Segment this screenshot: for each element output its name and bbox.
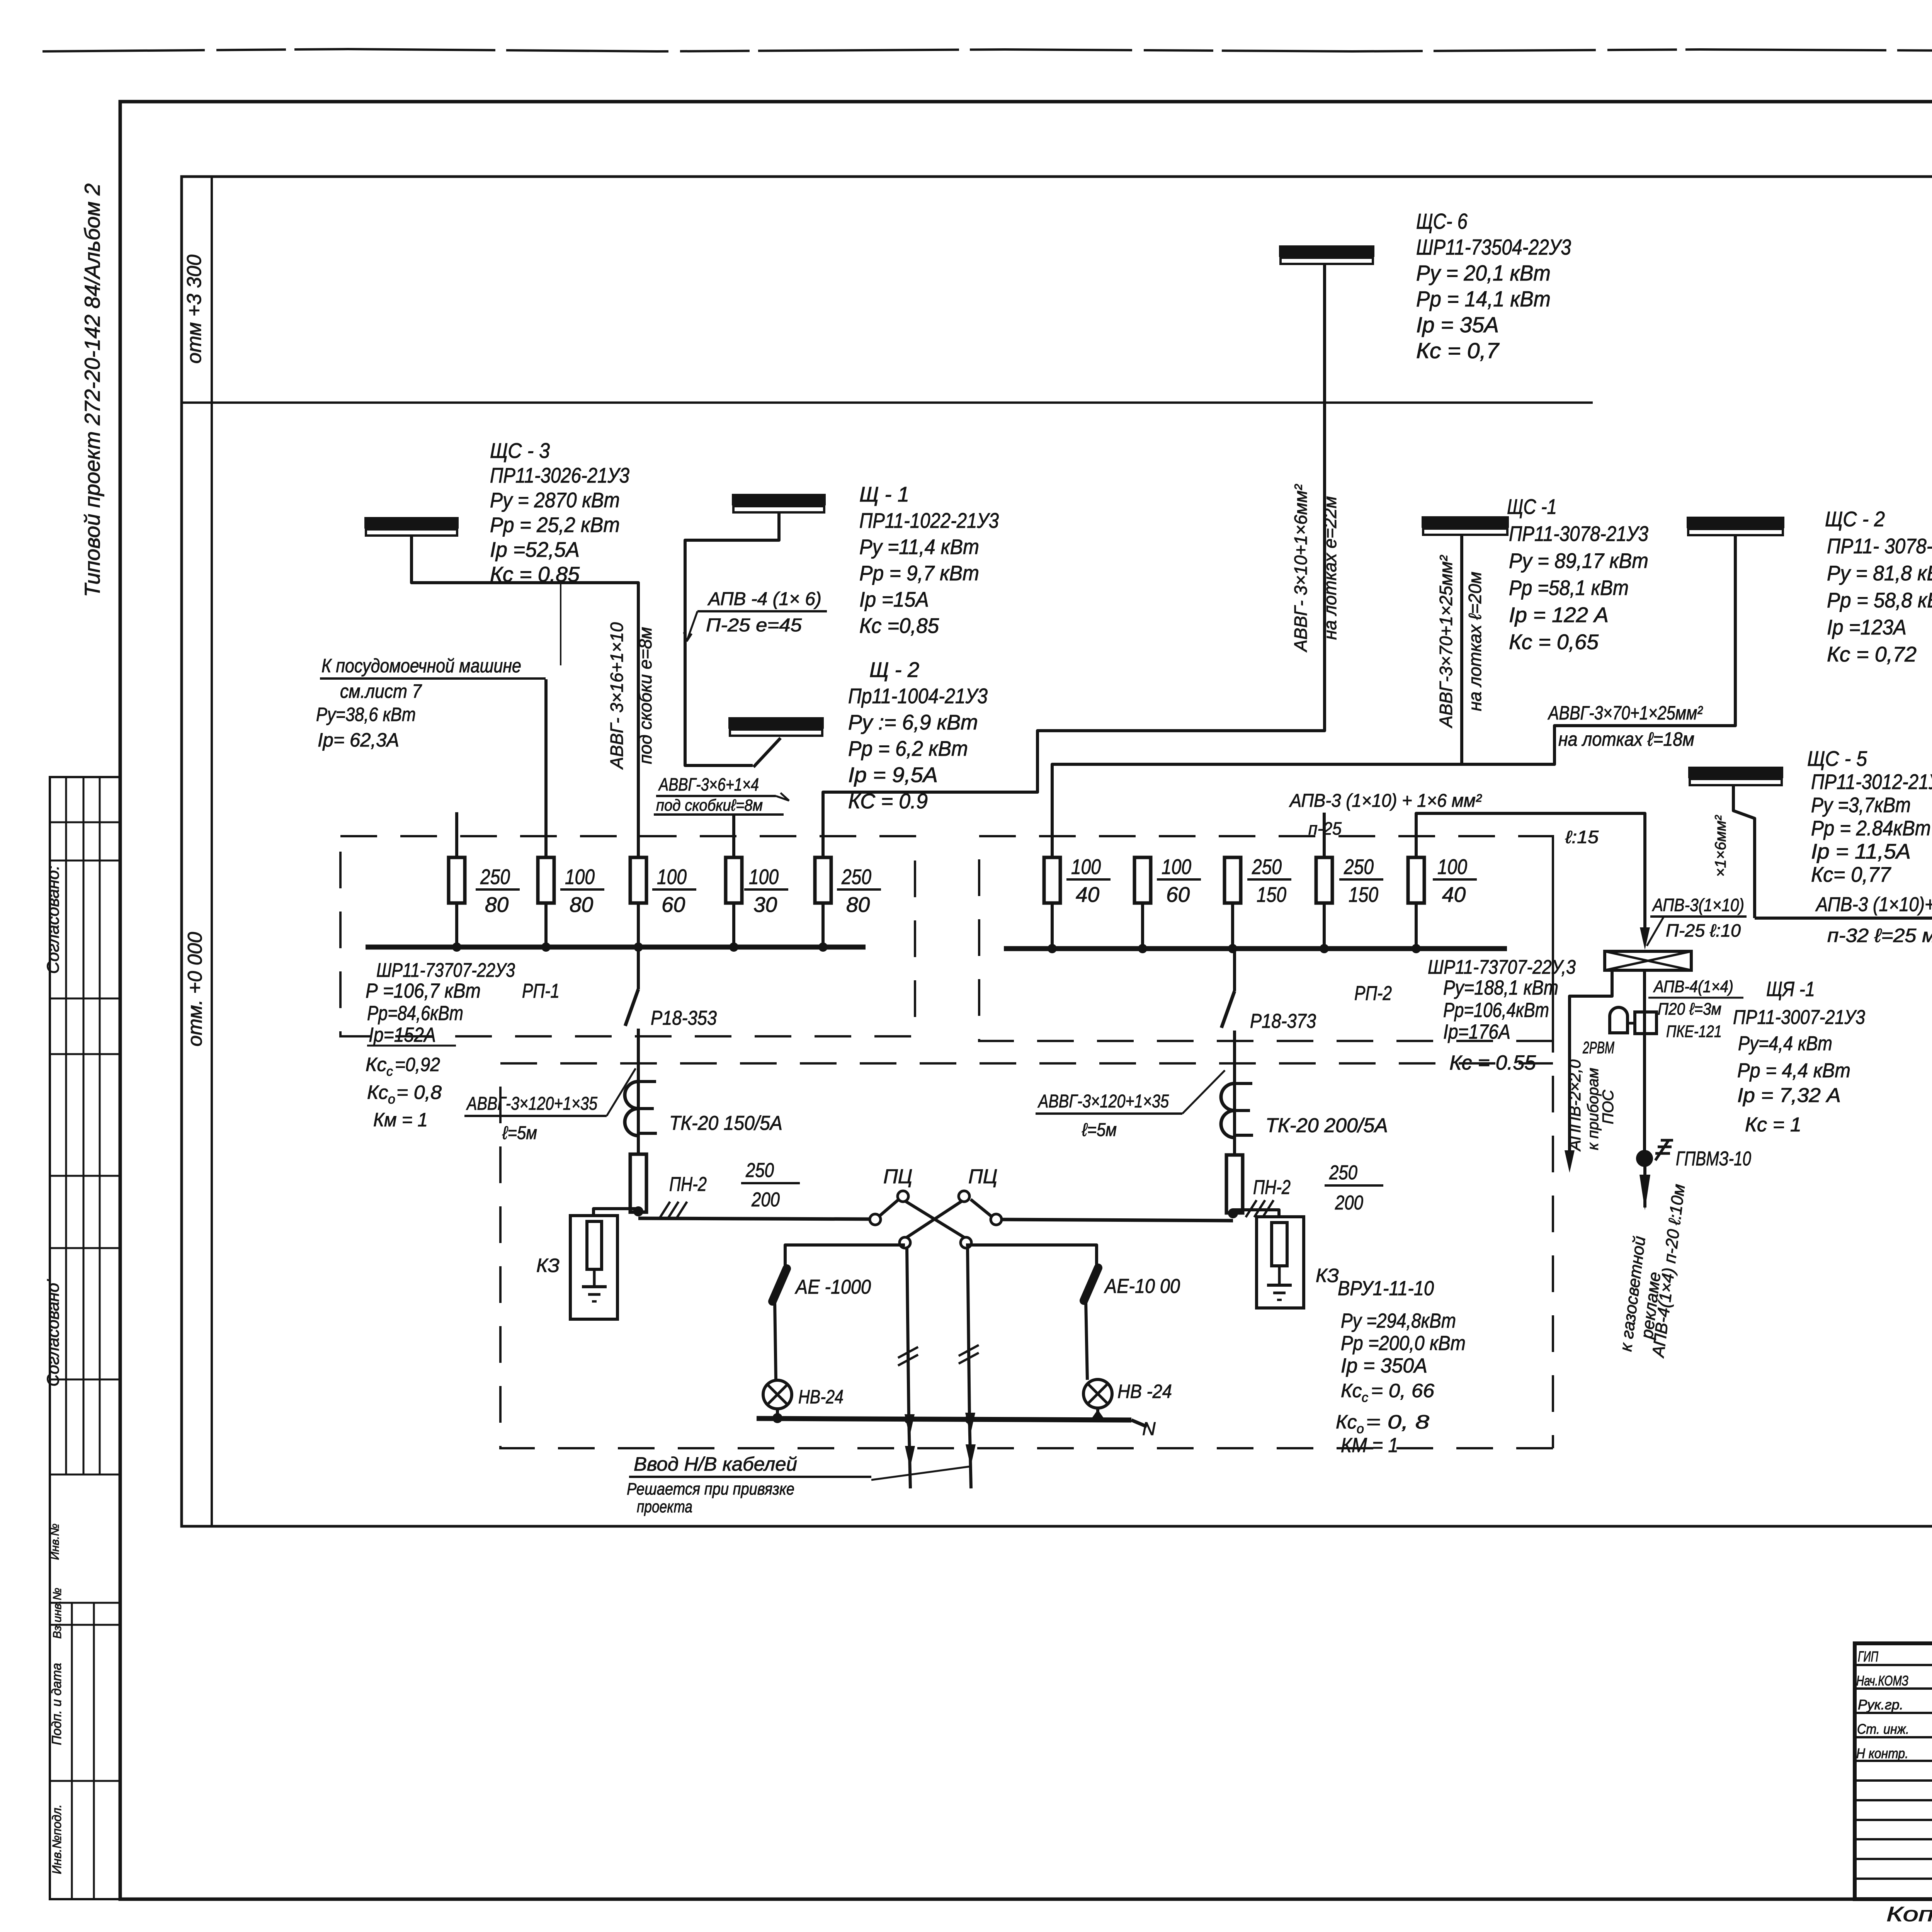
svg-text:проекта: проекта (637, 1497, 692, 1516)
label к приборам ПОС vertical (1585, 1068, 1617, 1150)
title row ГИП (1858, 1647, 1932, 1665)
svg-text:Инв.№подл.: Инв.№подл. (50, 1804, 64, 1874)
schematic area box (182, 177, 1932, 1526)
label к газосветной рекламе vertical (1616, 1183, 1689, 1359)
svg-text:250: 250 (1344, 855, 1374, 879)
svg-text:ПР11-3007-21У3: ПР11-3007-21У3 (1733, 1006, 1865, 1029)
svg-text:Подп. и дата: Подп. и дата (49, 1663, 64, 1745)
svg-text:ℓ=5м: ℓ=5м (502, 1123, 537, 1143)
cable label АПВ-3(1х10) П-25 е=10 (1647, 895, 1747, 946)
svg-text:Ввод Н/В кабелей: Ввод Н/В кабелей (634, 1453, 797, 1475)
tap ГПВМЗ-10 dot (1636, 1150, 1653, 1167)
svg-text:п-32 ℓ=25 м: п-32 ℓ=25 м (1827, 925, 1932, 946)
svg-text:НВ -24: НВ -24 (1117, 1381, 1172, 1402)
svg-text:Ру = 20,1 кВт: Ру = 20,1 кВт (1416, 261, 1551, 286)
junction РП-2 feeder (1228, 1208, 1238, 1218)
svg-text:Рр = 4,4 кВт: Рр = 4,4 кВт (1737, 1060, 1850, 1082)
switch ПКЕ-121 symbol (1635, 1012, 1656, 1034)
wire Щ-2 drop to fuse (732, 815, 735, 857)
lamp НВ-24 right (1083, 1379, 1112, 1408)
junction box ЩЯ-1 crossed rect (1605, 951, 1691, 970)
panel ЩС-1 busbar (1422, 516, 1509, 535)
svg-text:60: 60 (662, 893, 685, 917)
svg-text:Кс: Кс (367, 1082, 388, 1103)
svg-text:ПЦ: ПЦ (883, 1165, 913, 1188)
switch Р18-353 (625, 947, 638, 1154)
svg-text:КМ = 1: КМ = 1 (1341, 1434, 1398, 1457)
svg-text:Кс: Кс (366, 1054, 386, 1075)
svg-text:под скобкиℓ=8м: под скобкиℓ=8м (656, 796, 763, 814)
svg-text:ЩС - 3: ЩС - 3 (490, 439, 550, 463)
wire АПВ link ЩС-5 to ЩС-4 (1755, 917, 1932, 920)
junction (1141, 903, 1144, 949)
svg-text:п-25: п-25 (1308, 818, 1342, 838)
earthing box КЗ left (570, 1216, 617, 1319)
cable label АПВ-3(1х10)+1х6мм2 п-32 е=25м (1815, 893, 1932, 946)
page torn top edge (43, 49, 1932, 51)
svg-text:под скобки е=8м: под скобки е=8м (635, 627, 655, 764)
fuse ПН-2 left (630, 1154, 646, 1212)
svg-text:80: 80 (485, 893, 509, 917)
fuse label 100/60 b (1157, 855, 1201, 906)
wire ПЦ right feeder (1002, 1219, 1233, 1221)
fuse label 250/80 (476, 865, 520, 917)
fuse label 250/150 b (1339, 855, 1383, 906)
fuse РП-1 F2 100/80 (538, 857, 554, 903)
svg-text:Согласовано:: Согласовано: (44, 866, 63, 974)
cable label АВВГ-3х120+1х35 е=5м right (1036, 1070, 1225, 1140)
svg-text:ШР11-73707-22У3: ШР11-73707-22У3 (376, 959, 515, 981)
fuse РП-1 F4 100/30 (726, 857, 742, 903)
svg-text:Кс: Кс (1341, 1380, 1362, 1401)
svg-text:Ру =294,8кВт: Ру =294,8кВт (1341, 1310, 1456, 1332)
svg-text:Ру = 89,17 кВт: Ру = 89,17 кВт (1509, 549, 1648, 573)
svg-text:Iр = 350А: Iр = 350А (1341, 1354, 1427, 1377)
wire АЕ-1000 left branch (785, 1245, 905, 1269)
svg-text:Инв.№: Инв.№ (49, 1524, 61, 1560)
junction РП-1 feeder (633, 1206, 643, 1216)
svg-text:150: 150 (1257, 883, 1286, 906)
elevation line +3.300 (182, 401, 1593, 404)
svg-text:ПН-2: ПН-2 (1253, 1176, 1291, 1199)
wire Щ-1 drop (685, 512, 779, 765)
fuse РП-1 F5 250/80 (815, 857, 831, 903)
svg-text:Iр = 122 А: Iр = 122 А (1509, 603, 1609, 627)
svg-text:ТК-20 150/5А: ТК-20 150/5А (669, 1112, 782, 1134)
hash marks right (1246, 1200, 1274, 1217)
svg-text:×1×6мм²: ×1×6мм² (1712, 815, 1729, 877)
cable label АПВ-3(1х10)+1х6мм2 П-25 е=15 (1289, 791, 1599, 847)
fuse label 100/40 b (1433, 855, 1477, 906)
cable label АВВГ-3х6+1х4 под скобки (654, 774, 789, 815)
left margin table (50, 777, 121, 1899)
panel Щ-2 label block (848, 658, 988, 813)
fuse РП-2 F2 100/60 (1134, 857, 1151, 903)
svg-text:АВВГ-3×70+1×25мм²: АВВГ-3×70+1×25мм² (1436, 555, 1456, 729)
svg-text:Iр = 35А: Iр = 35А (1416, 313, 1499, 337)
svg-text:Ру=188,1 кВт: Ру=188,1 кВт (1443, 976, 1558, 999)
wire АПВ-3(1х10)+1х6 from РП-2 fuse5 (1416, 813, 1645, 938)
cable label АПВ-4(1х6) П-25 е=45 (684, 589, 827, 641)
svg-text:АППВ-2×2,0: АППВ-2×2,0 (1566, 1059, 1584, 1152)
junction (637, 903, 640, 947)
junction (1231, 903, 1234, 949)
svg-text:АВВГ- 3×16+1×10: АВВГ- 3×16+1×10 (607, 622, 627, 770)
svg-text:АЕ -1000: АЕ -1000 (794, 1276, 871, 1298)
switchgear dashed box (500, 836, 1553, 1448)
svg-text:ПОС: ПОС (1600, 1089, 1617, 1124)
svg-text:2РВМ: 2РВМ (1582, 1038, 1614, 1057)
svg-text:Копировал: Копировал (1886, 1903, 1932, 1926)
svg-text:Кс = 0,72: Кс = 0,72 (1827, 642, 1917, 666)
svg-text:АЕ-10 00: АЕ-10 00 (1104, 1275, 1180, 1298)
title row Ст инж (1857, 1719, 1932, 1737)
fuse РП-1 F3 100/60 (630, 857, 646, 903)
РП-1 dashed box (340, 836, 915, 1036)
panel ЩС-5 busbar (1688, 767, 1783, 785)
svg-text:Iр =52,5А: Iр =52,5А (490, 537, 580, 561)
svg-text:80: 80 (570, 893, 594, 917)
svg-text:ПР11-3012-21У3: ПР11-3012-21У3 (1811, 770, 1932, 794)
РП-1 label block (366, 959, 515, 1131)
svg-text:250: 250 (1329, 1162, 1357, 1184)
svg-text:Iр = 7,32 А: Iр = 7,32 А (1737, 1084, 1841, 1107)
svg-text:ПР11-3078-21У3: ПР11-3078-21У3 (1509, 522, 1648, 546)
CT ТК-20 150/5А (625, 1082, 657, 1136)
svg-text:Рр = 6,2 кВт: Рр = 6,2 кВт (848, 736, 968, 760)
panel ЩС-6 busbar (1279, 245, 1374, 264)
svg-text:Рр = 9,7 кВт: Рр = 9,7 кВт (859, 561, 979, 585)
svg-text:= 0,8: = 0,8 (396, 1082, 442, 1103)
svg-text:Кс = 0,7: Кс = 0,7 (1416, 338, 1500, 363)
fuse label 250/150 (1247, 855, 1291, 906)
hash marks left (659, 1202, 687, 1219)
svg-text:200: 200 (751, 1189, 780, 1211)
svg-text:Iр = 9,5А: Iр = 9,5А (848, 763, 938, 787)
fuse ПН-2 right (1226, 1155, 1243, 1213)
CT ТК-20 200/5А (1221, 1083, 1253, 1138)
title block (1855, 1643, 1932, 1899)
svg-text:Н контр.: Н контр. (1856, 1745, 1908, 1761)
fuse label 250/80 b (837, 865, 881, 917)
svg-text:100: 100 (1071, 855, 1101, 879)
svg-text:РП-2: РП-2 (1354, 982, 1392, 1005)
neutral bus N (757, 1418, 1147, 1427)
panel ЩС-5 label block (1807, 747, 1932, 886)
svg-text:Рр=84,6кВт: Рр=84,6кВт (367, 1002, 463, 1025)
svg-text:Типовой проект 272-20-142 84/А: Типовой проект 272-20-142 84/Альбом 2 (80, 184, 104, 597)
wire ПЦ right drop (968, 1248, 969, 1418)
wire to КЗ box left (594, 1209, 636, 1216)
svg-text:ЩС - 2: ЩС - 2 (1825, 507, 1885, 531)
fuse label ПН-2 250/200 right (1253, 1162, 1383, 1214)
panel ЩС-2 busbar (1687, 517, 1784, 535)
svg-text:на лотках ℓ=18м: на лотках ℓ=18м (1558, 728, 1694, 750)
svg-text:60: 60 (1166, 883, 1190, 906)
svg-text:Iр =15А: Iр =15А (859, 587, 929, 611)
svg-text:Ру := 6,9 кВт: Ру := 6,9 кВт (848, 710, 978, 734)
fuse РП-1 F1 250/80 (449, 857, 465, 903)
fuse РП-2 F5 100/40 (1408, 857, 1424, 903)
svg-text:= 0, 66: = 0, 66 (1371, 1380, 1434, 1401)
svg-text:Решается при привязке: Решается при привязке (627, 1480, 794, 1498)
title row Н контр (1856, 1745, 1932, 1762)
panel Щ-1 busbar (732, 494, 826, 512)
fuse label 100/40 (1066, 855, 1111, 906)
svg-text:250: 250 (745, 1159, 774, 1182)
svg-text:ЩЯ -1: ЩЯ -1 (1766, 978, 1815, 1001)
svg-text:Ру = 2870 кВт: Ру = 2870 кВт (490, 488, 620, 512)
svg-text:ВРУ1-11-10: ВРУ1-11-10 (1338, 1277, 1434, 1300)
outgoing cable left with arrows (904, 1414, 915, 1488)
wire stub fuse4 РП-2 (1323, 813, 1326, 857)
svg-text:ШР11-73504-22У3: ШР11-73504-22У3 (1416, 235, 1571, 260)
junction (1323, 903, 1326, 949)
svg-text:100: 100 (1437, 855, 1467, 879)
svg-text:200: 200 (1335, 1192, 1363, 1214)
svg-text:ПР11-1022-21У3: ПР11-1022-21У3 (859, 509, 999, 532)
svg-text:Рр=106,4кВт: Рр=106,4кВт (1443, 999, 1549, 1022)
svg-text:100: 100 (1162, 855, 1191, 879)
arrow к газосветной рекламе (1639, 1166, 1650, 1210)
svg-text:Кс: Кс (1336, 1411, 1357, 1433)
wire АЕ-1000 right branch (966, 1245, 1097, 1268)
panel ЩЯ-1 label block (1733, 978, 1865, 1136)
wire АППВ branch to left (1570, 970, 1612, 1161)
svg-text:П20 ℓ=3м: П20 ℓ=3м (1658, 1000, 1721, 1019)
svg-text:100: 100 (657, 865, 687, 889)
svg-text:ПР11- 3078-21У3: ПР11- 3078-21У3 (1827, 534, 1932, 558)
title row Рук гр (1858, 1695, 1932, 1713)
svg-text:АВВГ-3×6+1×4: АВВГ-3×6+1×4 (658, 774, 759, 794)
svg-text:КС = 0.9: КС = 0.9 (848, 789, 928, 813)
svg-text:Кс = 0.85: Кс = 0.85 (490, 562, 580, 586)
РП-2 bus (1004, 946, 1507, 951)
panel ЩС-2 label block (1825, 507, 1932, 666)
arrow АППВ down (1565, 1150, 1575, 1173)
svg-text:АПВ -4 (1× 6): АПВ -4 (1× 6) (707, 589, 821, 609)
svg-text:П-25 е=45: П-25 е=45 (706, 615, 802, 636)
svg-text:Р18-373: Р18-373 (1250, 1010, 1316, 1032)
svg-text:ГИП: ГИП (1858, 1649, 1878, 1665)
title row Нач КОМЗ (1856, 1669, 1932, 1689)
svg-text:250: 250 (480, 865, 510, 889)
svg-text:Р =106,7 кВт: Р =106,7 кВт (366, 980, 481, 1002)
arrow into ЩЯ-1 (1640, 927, 1650, 950)
hash on right drop (959, 1345, 979, 1364)
svg-text:КЗ: КЗ (1316, 1265, 1339, 1286)
cable label АВВГ-3х70+1х25мм2 на лотках е=18м (1548, 702, 1703, 750)
svg-text:АПВ-3(1×10): АПВ-3(1×10) (1651, 895, 1744, 915)
svg-text:ℓ=5м: ℓ=5м (1082, 1120, 1117, 1140)
load label К посудомоечной машине (316, 655, 546, 751)
svg-text:Щ - 2: Щ - 2 (869, 658, 919, 682)
fuse label ПН-2 250/200 left (669, 1159, 800, 1211)
note Ввод НВ кабелей (627, 1453, 971, 1516)
svg-text:Кс = 0,65: Кс = 0,65 (1509, 630, 1599, 654)
svg-text:ЩС- 6: ЩС- 6 (1416, 209, 1468, 234)
svg-text:Iр=152А: Iр=152А (369, 1024, 436, 1046)
button 2РВМ symbol (1610, 1007, 1636, 1033)
svg-text:150: 150 (1349, 883, 1378, 906)
svg-text:к приборам: к приборам (1585, 1068, 1602, 1150)
panel ЩС-1 label block (1507, 495, 1648, 654)
svg-text:Iр = 11,5А: Iр = 11,5А (1811, 839, 1911, 863)
cable label АПВ-4(1х4) П20 е=3м (1648, 977, 1743, 1019)
outgoing cable right with arrows (965, 1413, 976, 1488)
svg-text:40: 40 (1442, 883, 1466, 906)
svg-text:Кс= 0,77: Кс= 0,77 (1811, 862, 1891, 886)
svg-text:Кс = 1: Кс = 1 (1745, 1114, 1801, 1136)
svg-text:Рр = 14,1 кВт: Рр = 14,1 кВт (1416, 287, 1551, 311)
svg-text:с: с (1362, 1390, 1368, 1405)
svg-text:Щ - 1: Щ - 1 (859, 482, 909, 506)
wire stub fuse1 РП-1 (455, 812, 458, 857)
svg-text:Ст. инж.: Ст. инж. (1857, 1721, 1909, 1737)
junction (1415, 903, 1418, 949)
cross switch ПЦ (870, 1191, 1002, 1248)
РП-1 bus (366, 945, 866, 950)
РП-2 label block (1428, 956, 1576, 1074)
fuse label 100/60 (652, 865, 696, 917)
svg-text:= 0, 8: = 0, 8 (1366, 1411, 1429, 1433)
wire ЩС-1 stem (1460, 535, 1463, 764)
svg-text:АВВГ-3×120+1×35: АВВГ-3×120+1×35 (1037, 1091, 1169, 1112)
note Копировал (1886, 1902, 1932, 1926)
svg-text:ПЦ: ПЦ (968, 1165, 998, 1188)
svg-text:ЩС - 5: ЩС - 5 (1807, 747, 1867, 770)
wire to КЗ box right (1233, 1210, 1279, 1217)
svg-text:АПВ-4(1×4): АПВ-4(1×4) (1653, 977, 1733, 996)
svg-text:250: 250 (841, 865, 871, 889)
svg-text:АПВ-3 (1×10) + 1×6 мм²: АПВ-3 (1×10) + 1×6 мм² (1289, 791, 1482, 811)
svg-text:Рук.гр.: Рук.гр. (1858, 1697, 1903, 1713)
svg-text:отм +3 300: отм +3 300 (183, 255, 206, 364)
svg-text:ТК-20 200/5А: ТК-20 200/5А (1265, 1114, 1388, 1137)
wire Щ-2 stem diagonal (753, 738, 781, 767)
wire ЩС-5 stem (1733, 785, 1755, 918)
svg-text:80: 80 (846, 893, 870, 917)
junction (1051, 903, 1054, 949)
svg-text:100: 100 (749, 865, 779, 889)
wire ЩЯ-1 down (1643, 970, 1646, 1151)
lamp connection dots (772, 1408, 1106, 1423)
breaker АЕ-1000 left (772, 1269, 787, 1381)
cable label АВВГ-3х120+1х35 е=5м (464, 1068, 636, 1143)
svg-text:N: N (1142, 1419, 1156, 1439)
svg-text:Р18-353: Р18-353 (651, 1007, 717, 1029)
wire ПЦ left drop (907, 1248, 909, 1418)
earthing box КЗ right (1257, 1217, 1304, 1308)
svg-text:П-25 ℓ:10: П-25 ℓ:10 (1666, 920, 1741, 940)
svg-text:АВВГ-3×120+1×35: АВВГ-3×120+1×35 (466, 1094, 598, 1114)
svg-text:Вз.инв.№: Вз.инв.№ (51, 1588, 64, 1639)
svg-text:Согласовано': Согласовано' (44, 1279, 63, 1386)
svg-text:Ру = 81,8 кВт: Ру = 81,8 кВт (1827, 561, 1932, 585)
svg-text:на лотках ℓ=20м: на лотках ℓ=20м (1465, 571, 1485, 711)
svg-text:ЩС -1: ЩС -1 (1507, 495, 1557, 519)
svg-text:Рр = 25,2 кВт: Рр = 25,2 кВт (490, 513, 620, 537)
switch Р18-373 (1221, 949, 1235, 1155)
svg-text:100: 100 (565, 865, 595, 889)
svg-text:КЗ: КЗ (536, 1255, 560, 1276)
svg-text:Iр =123А: Iр =123А (1827, 615, 1906, 639)
breaker АЕ-1000 right (1084, 1268, 1098, 1380)
top margin band line (120, 100, 1932, 103)
wire to dishwasher leader (560, 583, 561, 665)
svg-text:Рр =200,0 кВт: Рр =200,0 кВт (1341, 1332, 1466, 1355)
wire junction to ПЦ left (638, 1218, 871, 1219)
elevation column divider (211, 177, 213, 1526)
svg-text:Км = 1: Км = 1 (373, 1109, 428, 1131)
ВРУ1-11-10 label block (1336, 1277, 1466, 1457)
panel ЩС-3 busbar (364, 517, 459, 536)
svg-text:=0,92: =0,92 (395, 1054, 440, 1075)
svg-text:Iр=176А: Iр=176А (1443, 1020, 1510, 1043)
panel ЩС-6 label block (1416, 209, 1571, 363)
fuse label 100/30 (744, 865, 788, 917)
svg-text:ПН-2: ПН-2 (669, 1173, 707, 1196)
hash on left drop (898, 1347, 918, 1366)
svg-text:НВ-24: НВ-24 (798, 1386, 844, 1408)
svg-text:о: о (388, 1092, 395, 1107)
junction (732, 903, 735, 947)
svg-text:Ру=4,4 кВт: Ру=4,4 кВт (1738, 1032, 1832, 1055)
fuse РП-2 F4 250/150 (1316, 857, 1332, 903)
svg-text:АВВГ-3×70+1×25мм²: АВВГ-3×70+1×25мм² (1548, 702, 1703, 724)
svg-text:Нач.КОМЗ: Нач.КОМЗ (1856, 1673, 1908, 1689)
svg-text:отм. +0 000: отм. +0 000 (184, 932, 206, 1047)
svg-text:Рр =58,1 кВт: Рр =58,1 кВт (1509, 576, 1629, 600)
svg-text:30: 30 (753, 893, 777, 917)
svg-text:с: с (386, 1064, 393, 1079)
svg-text:ПКЕ-121: ПКЕ-121 (1666, 1022, 1722, 1041)
svg-text:на лотках е=22м: на лотках е=22м (1320, 496, 1340, 640)
lamp НВ-24 left (763, 1380, 792, 1409)
svg-text:Кс =0,85: Кс =0,85 (859, 614, 939, 638)
svg-text:Iр= 62,3А: Iр= 62,3А (318, 729, 399, 751)
РП-2 dashed box (979, 836, 1553, 1041)
wire dishwasher feeder (544, 679, 548, 857)
svg-text:Ру =11,4 кВт: Ру =11,4 кВт (859, 535, 979, 559)
fuse РП-2 F3 250/150 (1225, 857, 1241, 903)
svg-text:Рр = 58,8 кВт: Рр = 58,8 кВт (1827, 588, 1932, 612)
fuse РП-2 F1 100/40 (1044, 857, 1060, 903)
junction (821, 903, 825, 947)
panel Щ-1 label block (859, 482, 999, 638)
svg-text:ГПВМЗ-10: ГПВМЗ-10 (1676, 1148, 1751, 1170)
svg-text:Ру =3,7кВт: Ру =3,7кВт (1811, 793, 1911, 817)
svg-text:Рр = 2.84кВт: Рр = 2.84кВт (1811, 816, 1931, 840)
svg-text:ℓ:15: ℓ:15 (1565, 827, 1599, 847)
panel Щ-2 busbar (728, 717, 824, 736)
wire ЩС-2 run to РП-2 (1052, 535, 1735, 857)
svg-text:Пр11-1004-21У3: Пр11-1004-21У3 (848, 684, 988, 708)
svg-text:Ру=38,6 кВт: Ру=38,6 кВт (316, 704, 416, 725)
svg-text:см.лист 7: см.лист 7 (340, 680, 422, 702)
svg-text:АПВ-3 (1×10)+1×6мм²: АПВ-3 (1×10)+1×6мм² (1815, 893, 1932, 916)
panel ЩС-3 label block (490, 439, 629, 586)
junction (455, 903, 458, 947)
wire ЩС-6 drop (823, 263, 1325, 857)
svg-text:40: 40 (1076, 883, 1100, 906)
junction (544, 903, 548, 947)
wire ЩС-3 drop (412, 536, 638, 857)
socket symbol ГПВМЗ (1655, 1140, 1673, 1160)
fuse label 100/80 (560, 865, 604, 917)
svg-text:АВВГ- 3×10+1×6мм²: АВВГ- 3×10+1×6мм² (1291, 484, 1311, 653)
svg-text:ПР11-3026-21У3: ПР11-3026-21У3 (490, 463, 629, 487)
